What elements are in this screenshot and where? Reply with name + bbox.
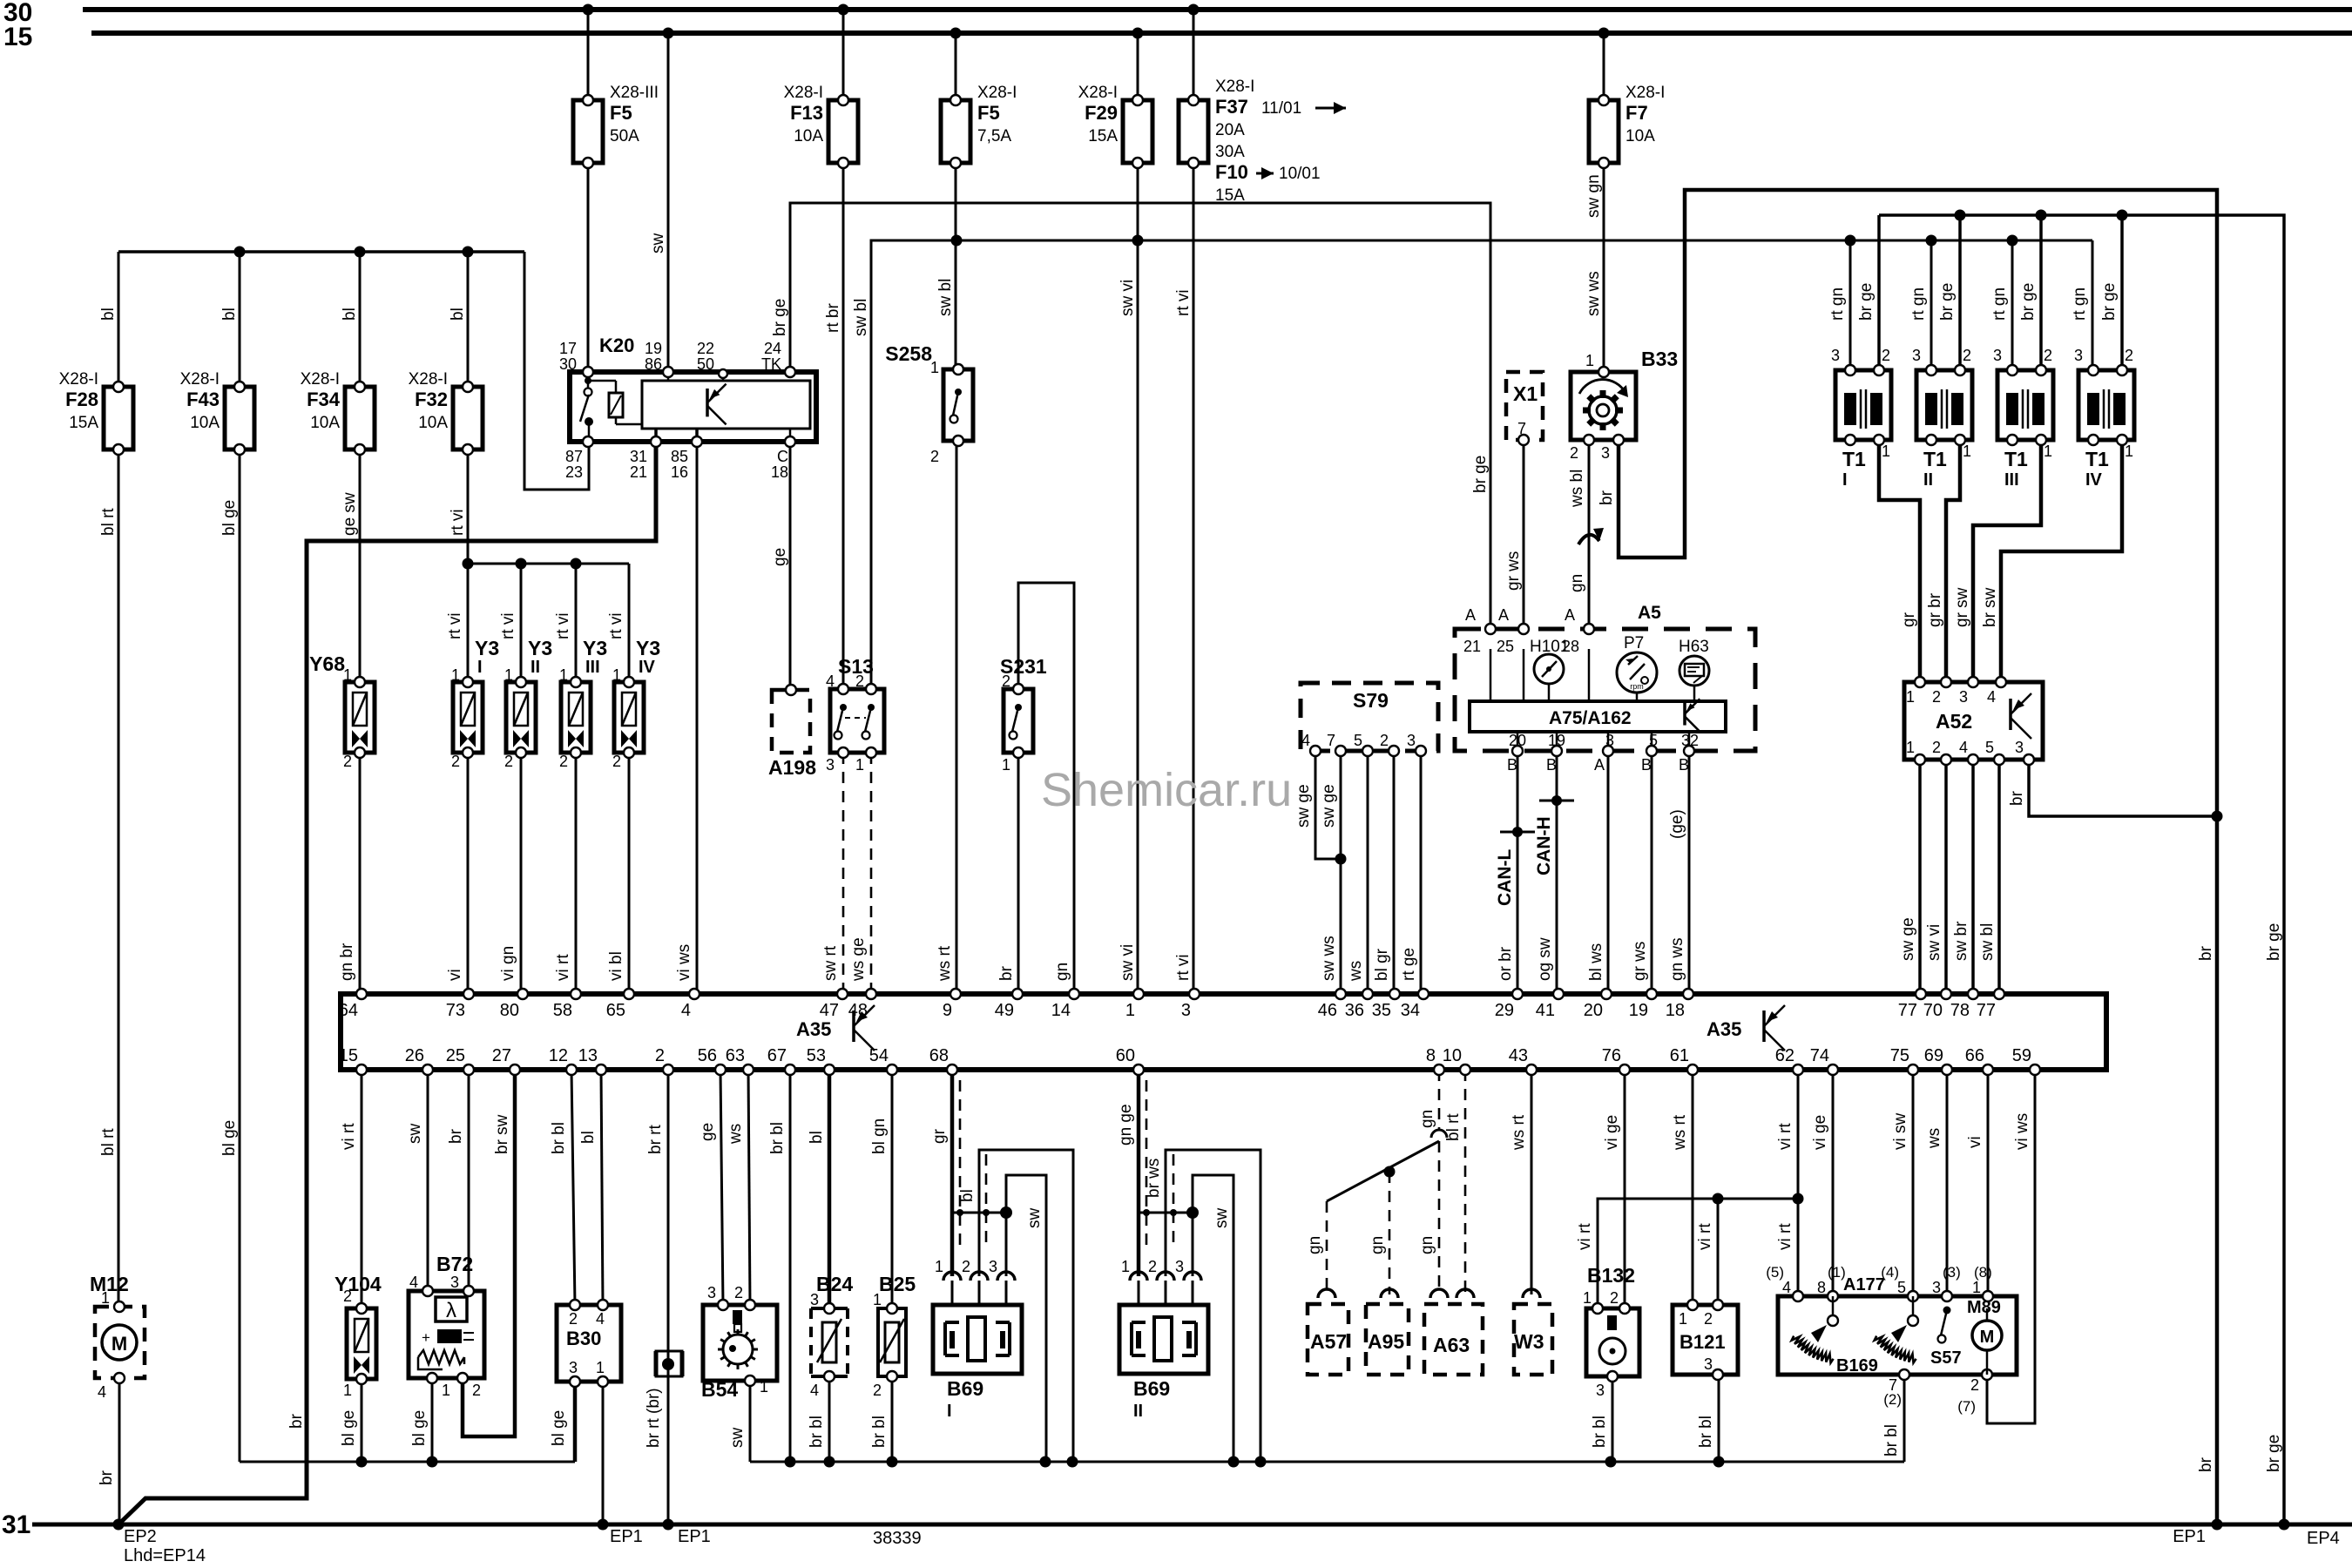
svg-text:sw br: sw br xyxy=(1952,921,1970,961)
svg-text:br: br xyxy=(2197,945,2215,961)
svg-text:sw ws: sw ws xyxy=(1320,936,1338,981)
svg-text:2: 2 xyxy=(569,1310,578,1328)
svg-text:or br: or br xyxy=(1497,946,1515,981)
svg-text:bl ws: bl ws xyxy=(1587,943,1605,981)
svg-text:1: 1 xyxy=(612,666,621,684)
svg-text:10: 10 xyxy=(1443,1046,1462,1065)
svg-text:vi rt: vi rt xyxy=(1776,1223,1794,1250)
svg-text:7: 7 xyxy=(1517,420,1526,437)
svg-text:bl: bl xyxy=(220,308,239,321)
svg-text:X28-III: X28-III xyxy=(610,84,659,102)
svg-text:vi sw: vi sw xyxy=(1891,1113,1909,1151)
wire vi bl from Y3-IV pin 2 to A35 pin 65 xyxy=(607,753,629,994)
svg-text:58: 58 xyxy=(553,1001,572,1020)
ignition switch B54 xyxy=(701,1284,777,1401)
svg-text:EP4: EP4 xyxy=(2307,1529,2340,1548)
svg-text:3: 3 xyxy=(2074,347,2083,364)
wire F7 feed from bus 15 to B33 pin 1 xyxy=(1585,28,1610,373)
svg-text:15A: 15A xyxy=(1088,127,1118,145)
svg-text:77: 77 xyxy=(1977,1001,1996,1020)
wire br bl from A35 pin 12 to B30 pin 2 xyxy=(550,1070,575,1305)
svg-text:29: 29 xyxy=(1495,1001,1514,1020)
svg-text:2: 2 xyxy=(1932,739,1941,756)
svg-text:3: 3 xyxy=(1959,688,1968,706)
wire vi ws from A35 pin 59 to M89 pin 2 xyxy=(1987,1070,2035,1423)
svg-text:2: 2 xyxy=(2044,347,2052,364)
wire gn ws from A5 pin 32 to A35 pin 18 xyxy=(1668,751,1689,994)
svg-text:bl ge: bl ge xyxy=(340,1410,358,1446)
wire vi from A35 pin 66 to M89 pin 1 xyxy=(1966,1070,1988,1292)
svg-text:br: br xyxy=(287,1413,306,1429)
svg-text:1: 1 xyxy=(873,1291,882,1308)
svg-text:ws rt: ws rt xyxy=(1671,1114,1689,1151)
svg-text:ge: ge xyxy=(699,1123,717,1141)
svg-text:2: 2 xyxy=(1610,1289,1619,1307)
diagram number 38339 xyxy=(873,1529,922,1548)
svg-text:49: 49 xyxy=(995,1001,1014,1020)
svg-text:A177: A177 xyxy=(1843,1275,1885,1294)
svg-text:rt ge: rt ge xyxy=(1400,948,1418,981)
svg-text:4: 4 xyxy=(681,1001,691,1020)
bus 31 ground line xyxy=(2,1511,2352,1539)
wire CAN-H from A5 pin 19 to A35 pin 41 xyxy=(1534,751,1574,994)
svg-text:C: C xyxy=(777,448,788,465)
svg-text:sw ge: sw ge xyxy=(1294,784,1313,828)
svg-text:H63: H63 xyxy=(1679,638,1709,656)
svg-text:gr ws: gr ws xyxy=(1504,551,1523,591)
svg-text:bl rt: bl rt xyxy=(99,508,118,536)
svg-text:3: 3 xyxy=(810,1291,819,1308)
svg-text:3: 3 xyxy=(707,1284,716,1301)
svg-text:F43: F43 xyxy=(186,389,220,410)
indicator H101 in A5 xyxy=(1530,638,1569,701)
svg-text:gn: gn xyxy=(1369,1236,1387,1254)
svg-text:sw: sw xyxy=(649,233,667,254)
svg-text:1: 1 xyxy=(935,1258,943,1275)
svg-text:Shemicar.ru: Shemicar.ru xyxy=(1041,764,1292,816)
svg-text:K20: K20 xyxy=(599,335,634,356)
wire bl gr from S79 pin 2 to A35 pin 35 xyxy=(1373,751,1394,994)
svg-text:A: A xyxy=(1565,606,1575,624)
wire br from A35 pin 25 to B72 pin 3 xyxy=(447,1070,469,1291)
svg-text:2: 2 xyxy=(1148,1258,1157,1275)
svg-text:B: B xyxy=(1679,756,1689,774)
svg-text:20A: 20A xyxy=(1215,121,1245,139)
svg-text:16: 16 xyxy=(671,463,688,481)
sensor B25 xyxy=(873,1273,916,1399)
svg-text:rt vi: rt vi xyxy=(499,612,517,639)
svg-text:X28-I: X28-I xyxy=(977,84,1017,102)
svg-text:gn: gn xyxy=(1306,1236,1324,1254)
svg-text:br bl: br bl xyxy=(1591,1416,1609,1448)
svg-text:og sw: og sw xyxy=(1536,937,1554,981)
svg-text:B: B xyxy=(1507,756,1517,774)
svg-text:rt gn: rt gn xyxy=(2071,287,2089,321)
wire sw br from A52 pin 4 to A35 pin 78 xyxy=(1952,760,1973,994)
fuse F37 F10 X28-I xyxy=(1179,78,1346,205)
svg-text:br ge: br ge xyxy=(2019,283,2038,321)
connector A63 xyxy=(1424,1289,1483,1375)
wire ws rt from A35 pin 61 to B121 pin 1 xyxy=(1671,1070,1693,1305)
svg-text:A: A xyxy=(1465,606,1476,624)
svg-text:3: 3 xyxy=(1605,732,1614,749)
svg-text:1: 1 xyxy=(559,666,568,684)
wire bl ge from B30 pin 3 to ground bus xyxy=(550,1382,575,1462)
svg-text:gr sw: gr sw xyxy=(1953,587,1971,627)
svg-text:vi bl: vi bl xyxy=(607,951,625,981)
wire vi sw from A35 pin 75 to A177 pin 5 xyxy=(1891,1070,1913,1317)
svg-text:br: br xyxy=(2197,1456,2215,1472)
svg-text:M: M xyxy=(1980,1328,1995,1347)
wire br ws from B69-II pin 2 xyxy=(1145,1150,1260,1462)
ignition coil T1 I xyxy=(1831,347,1891,490)
svg-text:B24: B24 xyxy=(816,1273,853,1295)
wire bl to F34 xyxy=(341,252,360,387)
svg-text:vi: vi xyxy=(446,969,464,981)
svg-text:10A: 10A xyxy=(794,127,823,145)
svg-text:sw ge: sw ge xyxy=(1899,917,1917,961)
svg-text:sw: sw xyxy=(406,1124,424,1145)
wires br ge coil pin 2 drops xyxy=(1857,215,2122,370)
wire br from K20 pin 21 to ground EP2 xyxy=(118,442,656,1524)
valve Y3 I xyxy=(451,637,499,770)
tachometer P7 in A5 xyxy=(1617,634,1657,701)
fuse F29 X28-I 15A xyxy=(1078,84,1152,168)
svg-text:1: 1 xyxy=(1121,1258,1130,1275)
wire ge from K20 pin 18 to A198 xyxy=(771,442,790,689)
svg-text:X28-I: X28-I xyxy=(409,370,448,389)
svg-text:Y68: Y68 xyxy=(309,652,345,675)
svg-text:56: 56 xyxy=(698,1046,717,1065)
svg-text:2: 2 xyxy=(655,1046,665,1065)
svg-text:25: 25 xyxy=(446,1046,465,1065)
wire ws from A35 pin 69 to S57 xyxy=(1925,1070,1947,1308)
svg-text:34: 34 xyxy=(1401,1001,1420,1020)
svg-text:2: 2 xyxy=(1570,444,1578,462)
relay K20 xyxy=(559,335,816,481)
svg-text:30A: 30A xyxy=(1215,143,1245,161)
svg-text:F28: F28 xyxy=(65,389,98,410)
svg-text:X28-I: X28-I xyxy=(301,370,340,389)
wire sw ge from A52 pin 1 to A35 pin 77 xyxy=(1899,760,1920,994)
svg-text:sw: sw xyxy=(728,1428,747,1449)
wire sw from B69-II shield and pin 3 xyxy=(1193,1175,1233,1462)
svg-text:T1: T1 xyxy=(2085,448,2109,470)
svg-text:19: 19 xyxy=(1548,732,1565,749)
svg-text:76: 76 xyxy=(1602,1046,1621,1065)
svg-text:ws: ws xyxy=(1925,1128,1943,1149)
sensor B30 xyxy=(557,1300,621,1387)
svg-text:br: br xyxy=(98,1470,116,1485)
wire ge from A35 pin 56 to B54 pin 3 xyxy=(699,1070,723,1305)
svg-text:3: 3 xyxy=(1831,347,1840,364)
svg-text:7: 7 xyxy=(1327,732,1335,749)
svg-text:A63: A63 xyxy=(1433,1334,1470,1356)
switch S13 xyxy=(826,655,884,774)
wire from K20 pin 23 to fuse bus xyxy=(524,252,589,490)
svg-text:gn ws: gn ws xyxy=(1668,937,1686,981)
wire br ge ignition coils secondary to ground EP4 xyxy=(1879,210,2290,1531)
svg-text:br ge: br ge xyxy=(2265,923,2283,961)
wire ws bl gn from B33 pin 2 to A5 pin 28 xyxy=(1568,440,1604,629)
svg-text:1: 1 xyxy=(1125,1001,1135,1020)
throttle unit A177 with B169 S57 M89 xyxy=(1766,1264,2017,1415)
svg-text:S79: S79 xyxy=(1353,689,1389,712)
svg-text:21: 21 xyxy=(630,463,647,481)
wire br bl from B24 pin 4 to ground bus xyxy=(808,1376,829,1462)
fuse F5 X28-I 7,5A xyxy=(941,84,1017,168)
knock sensor B69 I xyxy=(933,1258,1022,1421)
svg-text:10/01: 10/01 xyxy=(1279,165,1321,183)
svg-text:rt vi: rt vi xyxy=(607,612,625,639)
svg-text:rt gn: rt gn xyxy=(1990,287,2009,321)
svg-text:vi ge: vi ge xyxy=(1811,1115,1829,1150)
svg-text:A198: A198 xyxy=(768,756,816,779)
wire br from M12 pin 4 to ground EP2 xyxy=(98,1379,125,1531)
wire gn dashed from A35 pin 8 to A57 A95 A63 xyxy=(1306,1070,1447,1294)
svg-text:35: 35 xyxy=(1372,1001,1391,1020)
wire bl rt from F28 to M12 pin 1 xyxy=(99,449,118,1307)
wire F29 feed from bus 15 xyxy=(1119,28,1144,995)
svg-text:br sw: br sw xyxy=(1981,587,1999,627)
svg-text:4: 4 xyxy=(810,1382,819,1399)
svg-text:B169: B169 xyxy=(1836,1356,1878,1375)
svg-text:rt vi: rt vi xyxy=(1174,289,1193,316)
valve Y3 IV xyxy=(612,637,660,770)
ground EP1 center xyxy=(678,1527,711,1546)
ground EP1 left xyxy=(610,1527,643,1546)
svg-text:5: 5 xyxy=(1354,732,1362,749)
svg-text:3: 3 xyxy=(1181,1001,1191,1020)
svg-text:gn ge: gn ge xyxy=(1117,1104,1135,1146)
switch S258 xyxy=(885,342,973,465)
svg-text:A35: A35 xyxy=(1707,1018,1741,1040)
svg-text:bl rt: bl rt xyxy=(99,1128,118,1156)
svg-text:A52: A52 xyxy=(1936,710,1972,733)
connector A57 xyxy=(1308,1289,1348,1375)
svg-text:2: 2 xyxy=(1882,347,1890,364)
svg-text:1: 1 xyxy=(1906,739,1915,756)
fuse F28 X28-I 15A xyxy=(59,370,133,455)
wire bl to F28 xyxy=(99,252,118,387)
svg-text:ws rt: ws rt xyxy=(1510,1114,1528,1151)
svg-text:II: II xyxy=(1133,1402,1143,1421)
ground bus right section xyxy=(750,1456,1904,1468)
svg-text:gn: gn xyxy=(1418,1236,1436,1254)
svg-text:61: 61 xyxy=(1670,1046,1689,1065)
fuse F7 X28-I 10A xyxy=(1589,84,1665,168)
wire F13 feed from bus 30 xyxy=(824,4,849,690)
wire ws ge dashed from S13 pin 1 to A35 pin 48 xyxy=(849,753,871,994)
watermark xyxy=(1041,764,1292,816)
svg-text:CAN-H: CAN-H xyxy=(1534,816,1554,875)
svg-text:2: 2 xyxy=(962,1258,970,1275)
svg-text:2: 2 xyxy=(1002,672,1010,690)
svg-text:12: 12 xyxy=(549,1046,568,1065)
svg-text:F7: F7 xyxy=(1625,102,1648,124)
svg-text:10A: 10A xyxy=(310,414,340,432)
wire gn from S231 pin 2 to A35 pin 14 xyxy=(1018,583,1074,994)
svg-text:7: 7 xyxy=(1889,1376,1897,1394)
svg-text:1: 1 xyxy=(504,666,513,684)
svg-text:68: 68 xyxy=(929,1046,949,1065)
svg-text:1: 1 xyxy=(1963,443,1971,460)
svg-text:17: 17 xyxy=(559,340,577,357)
svg-text:B33: B33 xyxy=(1641,348,1678,370)
svg-text:B: B xyxy=(1641,756,1652,774)
svg-text:bl ge: bl ge xyxy=(220,1120,239,1156)
wire sw bl from A52 pin 5 to A35 pin 77 xyxy=(1978,760,1999,994)
svg-text:(8): (8) xyxy=(1974,1264,1992,1281)
svg-text:65: 65 xyxy=(606,1001,625,1020)
ignition coil T1 IV xyxy=(2074,347,2134,490)
svg-text:21: 21 xyxy=(1463,638,1481,655)
svg-text:bl: bl xyxy=(808,1131,826,1144)
switch S231 xyxy=(1000,655,1047,774)
svg-text:27: 27 xyxy=(492,1046,511,1065)
svg-text:gr: gr xyxy=(1900,612,1918,627)
ground EP4 xyxy=(2307,1529,2340,1548)
svg-text:B132: B132 xyxy=(1587,1264,1635,1287)
valve Y3 II xyxy=(504,637,552,770)
connector A95 xyxy=(1366,1289,1409,1375)
svg-text:gr ws: gr ws xyxy=(1631,942,1649,981)
sensor B121 xyxy=(1673,1300,1738,1380)
svg-text:S258: S258 xyxy=(885,342,932,365)
svg-text:1: 1 xyxy=(1882,443,1890,460)
svg-text:(7): (7) xyxy=(1957,1398,1976,1415)
svg-text:7,5A: 7,5A xyxy=(977,127,1011,145)
svg-text:+: + xyxy=(422,1329,430,1346)
svg-text:20: 20 xyxy=(1584,1001,1603,1020)
svg-text:P7: P7 xyxy=(1624,634,1644,652)
svg-text:vi rt: vi rt xyxy=(1776,1123,1794,1150)
svg-text:43: 43 xyxy=(1509,1046,1528,1065)
svg-text:47: 47 xyxy=(820,1001,839,1020)
svg-text:(3): (3) xyxy=(1943,1264,1961,1281)
wire br sw from A35 pin 27 to B72 pin 2 xyxy=(463,1070,515,1436)
svg-text:vi rt: vi rt xyxy=(340,1123,358,1150)
svg-text:Y3: Y3 xyxy=(636,637,660,659)
svg-text:T1: T1 xyxy=(2004,448,2028,470)
svg-text:(5): (5) xyxy=(1766,1264,1784,1281)
svg-text:B: B xyxy=(1546,756,1557,774)
wire bl to F32 xyxy=(449,252,468,387)
svg-text:rt vi: rt vi xyxy=(1174,954,1193,981)
ground EP1 right xyxy=(2173,1527,2206,1546)
svg-text:85: 85 xyxy=(671,448,688,465)
wire gn ge from A35 pin 60 to B69-II pin 1 xyxy=(1117,1070,1139,1276)
svg-text:10A: 10A xyxy=(1625,127,1655,145)
svg-text:59: 59 xyxy=(2012,1046,2031,1065)
svg-text:br: br xyxy=(447,1128,465,1144)
wire vi from Y3-I pin 2 to A35 pin 73 xyxy=(446,753,468,994)
svg-text:1: 1 xyxy=(1679,1310,1687,1328)
svg-text:I: I xyxy=(477,658,483,677)
svg-text:1: 1 xyxy=(855,756,864,774)
svg-text:bl ge: bl ge xyxy=(550,1410,568,1446)
svg-text:X28-I: X28-I xyxy=(59,370,98,389)
svg-text:3: 3 xyxy=(1932,1279,1941,1296)
svg-text:2: 2 xyxy=(343,1288,352,1305)
svg-text:3: 3 xyxy=(1912,347,1921,364)
svg-text:I: I xyxy=(1842,470,1848,490)
svg-text:B72: B72 xyxy=(436,1253,473,1275)
svg-text:5: 5 xyxy=(1897,1279,1906,1296)
svg-text:λ: λ xyxy=(446,1299,456,1322)
svg-text:TK: TK xyxy=(761,355,781,373)
shield of B69-I xyxy=(954,1080,1012,1248)
wire br bl from A35 pin 67 to ground bus xyxy=(768,1070,790,1462)
wire rt vi from F32 to Y3 valves xyxy=(449,449,474,682)
svg-text:F5: F5 xyxy=(610,102,632,124)
svg-text:36: 36 xyxy=(1345,1001,1364,1020)
fuse F13 X28-I 10A xyxy=(784,84,858,168)
svg-text:vi ws: vi ws xyxy=(675,944,693,981)
svg-text:rt gn: rt gn xyxy=(1828,287,1847,321)
svg-text:13: 13 xyxy=(578,1046,598,1065)
svg-text:M89: M89 xyxy=(1967,1298,2001,1317)
svg-text:sw vi: sw vi xyxy=(1119,280,1137,316)
svg-text:1: 1 xyxy=(2125,443,2133,460)
sensor B24 xyxy=(810,1273,853,1399)
rt vi distribution line to Y3 II III IV xyxy=(446,558,629,683)
wire sw ge from S79 pin 4 joined with pin 7 xyxy=(1294,751,1347,865)
ground bus left section xyxy=(240,1461,575,1463)
svg-text:1: 1 xyxy=(343,666,352,684)
svg-text:32: 32 xyxy=(1681,732,1699,749)
svg-text:1: 1 xyxy=(1002,756,1010,774)
svg-text:F10: F10 xyxy=(1215,161,1248,183)
svg-text:br ge: br ge xyxy=(2265,1435,2283,1472)
connector on br rt wire xyxy=(656,1351,682,1376)
wire F37 feed from bus 30 xyxy=(1174,4,1200,995)
svg-text:41: 41 xyxy=(1536,1001,1555,1020)
wire ge sw from F34 to Y68 pin 1 xyxy=(341,449,360,682)
svg-text:EP2: EP2 xyxy=(124,1527,157,1546)
valve Y3 III xyxy=(559,637,607,770)
svg-text:ws rt: ws rt xyxy=(936,945,954,982)
svg-text:br sw: br sw xyxy=(493,1114,511,1154)
svg-text:bl ge: bl ge xyxy=(220,500,239,536)
svg-text:18: 18 xyxy=(771,463,788,481)
svg-text:B25: B25 xyxy=(879,1273,916,1295)
svg-text:2: 2 xyxy=(559,753,568,770)
svg-text:9: 9 xyxy=(943,1001,952,1020)
svg-text:bl: bl xyxy=(341,308,359,321)
wire vi rt from A35 pin 62 to A177 pin 4 xyxy=(1776,1070,1798,1296)
svg-text:III: III xyxy=(2004,470,2019,490)
wire br bl from B132 pin 3 to ground bus xyxy=(1591,1376,1612,1462)
svg-text:Y3: Y3 xyxy=(583,637,607,659)
svg-text:rpm: rpm xyxy=(1630,682,1644,691)
sensor B33 crankshaft xyxy=(1570,348,1678,462)
svg-text:1: 1 xyxy=(596,1359,605,1376)
wire br from B33 pin 3 to ground EP1 xyxy=(1598,190,2223,1531)
svg-text:70: 70 xyxy=(1923,1001,1943,1020)
svg-text:69: 69 xyxy=(1924,1046,1943,1065)
svg-text:ws bl: ws bl xyxy=(1568,470,1586,508)
svg-text:2: 2 xyxy=(472,1382,481,1399)
svg-text:II: II xyxy=(1923,470,1933,490)
svg-text:1: 1 xyxy=(930,359,939,376)
ground EP2 xyxy=(124,1527,206,1565)
svg-text:X1: X1 xyxy=(1513,382,1538,405)
svg-text:3: 3 xyxy=(1704,1355,1713,1373)
svg-text:br ge: br ge xyxy=(1938,283,1957,321)
svg-text:bl: bl xyxy=(449,308,467,321)
svg-text:2: 2 xyxy=(504,753,513,770)
